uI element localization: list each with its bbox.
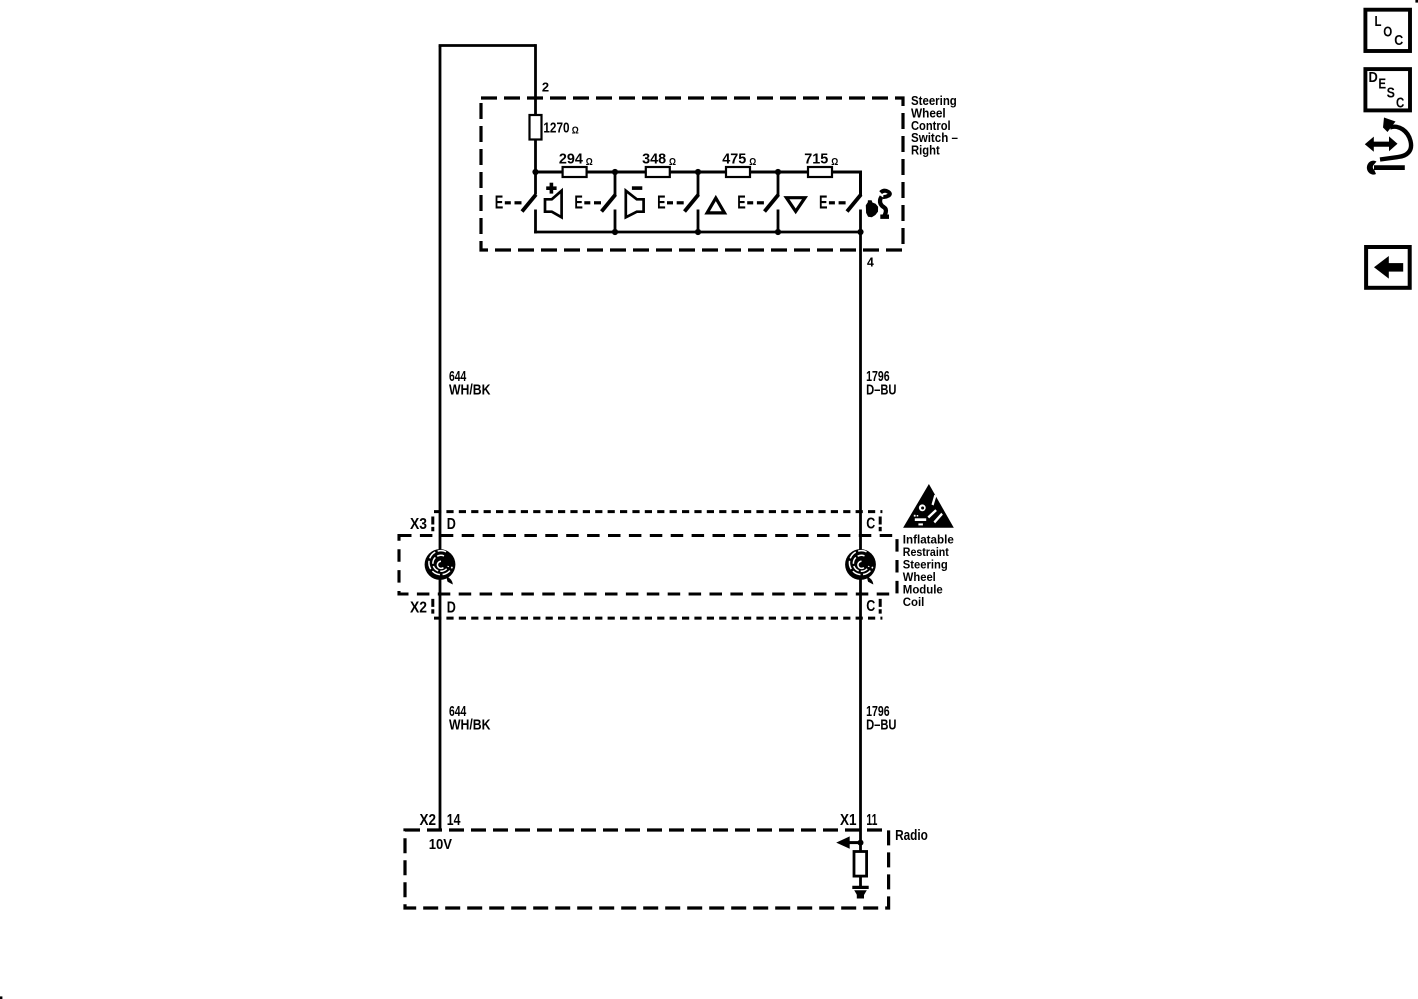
svg-text:X2: X2 bbox=[420, 812, 437, 829]
connector X2 strip: right end mark bbox=[879, 599, 882, 614]
wire: stub from R1270 through bus to switch 1 blade bbox=[534, 140, 537, 195]
wire label: 1796 D-BU (upper) bbox=[866, 369, 896, 399]
page corner mark (top right) bbox=[1415, 0, 1418, 3]
svg-text:X2: X2 bbox=[410, 600, 427, 617]
wire: resistor to ground bbox=[859, 876, 862, 887]
wire: bottom bus of switch block bbox=[534, 231, 860, 234]
svg-text:715: 715 bbox=[804, 152, 828, 168]
label: Inflatable Restraint Steering Wheel Module Coil bbox=[903, 533, 954, 610]
svg-text:D: D bbox=[447, 516, 456, 533]
connector X3 strip: right end mark bbox=[879, 517, 882, 532]
svg-text:14: 14 bbox=[447, 812, 461, 829]
switch S4 (seek down) contact bbox=[737, 193, 778, 234]
icon: harness routing pigtail arrow bbox=[1365, 118, 1411, 175]
wire W1: 644 WH/BK left vertical run bbox=[439, 46, 442, 831]
icon: back arrow hotspot box bbox=[1366, 247, 1410, 288]
radio dashed box bbox=[405, 830, 889, 908]
switch S3 (seek up) contact bbox=[657, 193, 698, 234]
ground symbol bbox=[852, 887, 868, 898]
wire: stub bus to switch 4 bbox=[777, 172, 780, 196]
wire: stub bus to switch 3 bbox=[697, 172, 700, 196]
icon: seek down triangle bbox=[786, 198, 805, 212]
svg-text:348: 348 bbox=[642, 152, 666, 168]
value label 1270 ohm bbox=[543, 120, 578, 136]
resistor R 1270 ohm bbox=[530, 115, 542, 140]
svg-text:1270: 1270 bbox=[543, 120, 569, 136]
svg-text:Ω: Ω bbox=[831, 157, 838, 168]
resistor (radio internal pull-down) bbox=[854, 852, 867, 877]
node: bus junction at switch 3 bbox=[695, 169, 701, 175]
svg-text:C: C bbox=[1396, 95, 1404, 111]
node: bus junction at switch 1 bbox=[532, 169, 538, 175]
resistor R 294 ohm bbox=[563, 167, 587, 177]
svg-text:D–BU: D–BU bbox=[866, 383, 896, 399]
svg-text:E: E bbox=[495, 193, 504, 213]
svg-text:L: L bbox=[1375, 14, 1382, 30]
node: bottom bus junction under S2 bbox=[612, 229, 618, 235]
switch S5 (voice/phone) contact bbox=[819, 193, 861, 234]
coil L2 (right, driver coil) bbox=[845, 549, 876, 584]
svg-text:D: D bbox=[1369, 70, 1378, 86]
icon: DESC hotspot box bbox=[1365, 69, 1410, 111]
svg-text:Ω: Ω bbox=[572, 126, 579, 137]
wire: top resistor bus bbox=[536, 171, 861, 174]
wire: stub bus to switch 2 bbox=[614, 172, 617, 196]
svg-text:2: 2 bbox=[542, 81, 549, 95]
svg-text:E: E bbox=[574, 193, 583, 213]
connector X2 strip: left end mark bbox=[431, 599, 434, 614]
svg-text:E: E bbox=[819, 193, 828, 213]
svg-text:Ω: Ω bbox=[669, 157, 676, 168]
wire label: 644 WH/BK (lower) bbox=[449, 704, 491, 734]
value label 294 ohm bbox=[559, 152, 593, 168]
svg-text:D–BU: D–BU bbox=[866, 718, 896, 734]
svg-text:Ω: Ω bbox=[586, 157, 593, 168]
wire: 1796 D-BU right vertical run (pin 4 to radio) bbox=[859, 232, 862, 852]
icon: voice recognition / phone bbox=[866, 191, 890, 217]
svg-text:X1: X1 bbox=[840, 812, 857, 829]
node: junction at arrow / resistor bbox=[858, 840, 864, 846]
steering wheel control switch dashed box bbox=[481, 98, 903, 250]
node: bus junction at switch 4 bbox=[775, 169, 781, 175]
svg-text:S: S bbox=[1387, 86, 1396, 102]
svg-text:475: 475 bbox=[722, 152, 746, 168]
svg-text:WH/BK: WH/BK bbox=[449, 383, 491, 399]
svg-text:C: C bbox=[1394, 33, 1403, 49]
svg-text:11: 11 bbox=[866, 812, 877, 829]
svg-text:10V: 10V bbox=[429, 836, 452, 853]
svg-text:294: 294 bbox=[559, 152, 584, 168]
resistor R 475 ohm bbox=[726, 167, 750, 177]
node: bus junction at switch 2 bbox=[612, 169, 618, 175]
wire label: 1796 D-BU (lower) bbox=[866, 704, 896, 734]
node: bottom bus junction under S3 bbox=[695, 229, 701, 235]
connector X3 strip: top dashed line bbox=[434, 510, 882, 513]
wire: bus right corner down to switch 5 bbox=[859, 172, 861, 196]
node: bottom bus junction under S4 bbox=[775, 229, 781, 235]
value label 475 ohm bbox=[722, 152, 756, 168]
svg-text:Radio: Radio bbox=[895, 827, 928, 844]
svg-text:WH/BK: WH/BK bbox=[449, 718, 491, 734]
value label 348 ohm bbox=[642, 152, 676, 168]
svg-text:Coil: Coil bbox=[903, 595, 925, 609]
svg-text:E: E bbox=[657, 193, 666, 213]
svg-text:4: 4 bbox=[867, 255, 875, 270]
svg-text:E: E bbox=[737, 193, 746, 213]
icon: seek up triangle bbox=[707, 198, 724, 213]
svg-text:E: E bbox=[1378, 77, 1386, 93]
inflatable restraint module dashed box bbox=[399, 536, 897, 595]
warning triangle (SIR caution) bbox=[903, 484, 954, 528]
svg-text:X3: X3 bbox=[410, 516, 427, 533]
connector X3 strip: left end mark bbox=[431, 517, 434, 532]
arrowhead (to other radio circuits) bbox=[836, 836, 850, 848]
svg-text:O: O bbox=[1383, 24, 1392, 40]
icon: volume down speaker with minus bbox=[626, 186, 644, 217]
switch S1 (volume up) contact bbox=[495, 193, 536, 234]
svg-text:C: C bbox=[866, 598, 875, 615]
icon: volume up speaker with plus bbox=[545, 183, 562, 218]
wire: arrow to other circuits inside radio bbox=[846, 841, 861, 844]
svg-text:Ω: Ω bbox=[749, 157, 756, 168]
node: bottom bus junction under S5 / pin 4 bbox=[857, 229, 863, 235]
svg-text:C: C bbox=[866, 516, 875, 533]
value label 715 ohm bbox=[804, 152, 838, 168]
wire W3: drop into pin 2 of switch bbox=[534, 44, 537, 116]
page corner mark (bottom left) bbox=[0, 996, 2, 999]
wire label: 644 WH/BK (upper) bbox=[449, 369, 491, 399]
icon: LOC hotspot box bbox=[1365, 10, 1410, 51]
coil L1 (left, driver coil) bbox=[425, 549, 456, 584]
svg-text:Right: Right bbox=[911, 142, 940, 157]
wire W2: top horizontal jumper bbox=[439, 44, 536, 47]
switch S2 (volume down) contact bbox=[574, 193, 615, 234]
label: Steering Wheel Control Switch - Right bbox=[911, 93, 958, 157]
resistor R 715 ohm bbox=[808, 167, 832, 177]
svg-text:D: D bbox=[447, 600, 456, 617]
resistor R 348 ohm bbox=[646, 167, 670, 177]
connector X2 strip (coil bottom): bottom dashed line bbox=[434, 617, 882, 620]
